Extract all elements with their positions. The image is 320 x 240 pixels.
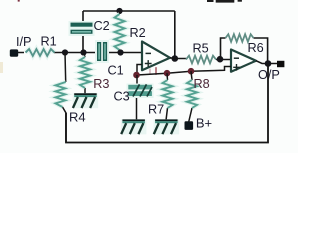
svg-text:C2: C2 (94, 19, 110, 33)
resistor R6 (226, 34, 254, 42)
node: junction dot after R1 (62, 49, 68, 55)
resistor R3 (84, 53, 86, 95)
wire: U1 power stub (thin red) (155, 67, 157, 75)
svg-text:C3: C3 (114, 90, 130, 104)
resistor R5 (186, 56, 216, 64)
capacitor C1 (95, 40, 109, 63)
terminal I/P square (10, 49, 18, 56)
wire: U1 output to R5 (170, 58, 231, 60)
terminal O/P square (277, 61, 284, 67)
ground under R7 (154, 119, 180, 134)
wire: R4 branch from node down (63, 53, 67, 143)
wire: top feedback rail (83, 11, 175, 59)
op-amp U1 (142, 42, 170, 71)
wire: bottom feedback loop to R4 (66, 64, 268, 143)
wire: R6 feedback rail (221, 38, 268, 64)
node: rail dot C3 (133, 72, 140, 79)
svg-text:R7: R7 (148, 102, 164, 116)
svg-text:R2: R2 (130, 26, 146, 40)
lower rail wire (137, 67, 231, 76)
wire: U2 output to O/P (256, 61, 277, 64)
resistor R4 (56, 82, 66, 107)
wire: main input wire (18, 52, 143, 54)
node: rail dot R7 (164, 70, 171, 77)
svg-text:R1: R1 (41, 35, 57, 49)
ground under R3 (73, 93, 99, 108)
svg-text:R3: R3 (93, 77, 109, 91)
node: junction dot under R2 (117, 49, 123, 55)
capacitor C3 (136, 75, 139, 120)
terminal B+ square (185, 121, 194, 130)
resistor R8 (189, 71, 192, 121)
svg-text:O/P: O/P (258, 68, 280, 82)
svg-text:R8: R8 (194, 77, 210, 91)
resistor R2 (119, 11, 121, 53)
node: dot at U2 - input (217, 56, 224, 63)
node: output dot (265, 60, 272, 67)
svg-text:R5: R5 (193, 42, 209, 56)
svg-text:C1: C1 (108, 64, 124, 78)
ground under C3 (121, 119, 146, 134)
svg-text:R4: R4 (69, 110, 86, 125)
resistor R1 (26, 49, 55, 56)
svg-text:R6: R6 (248, 41, 264, 55)
resistor R7 (166, 73, 168, 120)
node: U1 output dot (172, 55, 179, 62)
wire: U1 + input to lower rail (137, 65, 142, 76)
op-amp U2 (231, 50, 256, 72)
svg-text:B+: B+ (196, 116, 212, 131)
artifact marks top (207, 0, 214, 2)
node: rail dot R8 (188, 68, 195, 75)
node: junction dot on rail at R2 (116, 8, 122, 14)
capacitor C2 (69, 21, 95, 36)
node: junction dot at C2/R3 drop (80, 49, 86, 55)
